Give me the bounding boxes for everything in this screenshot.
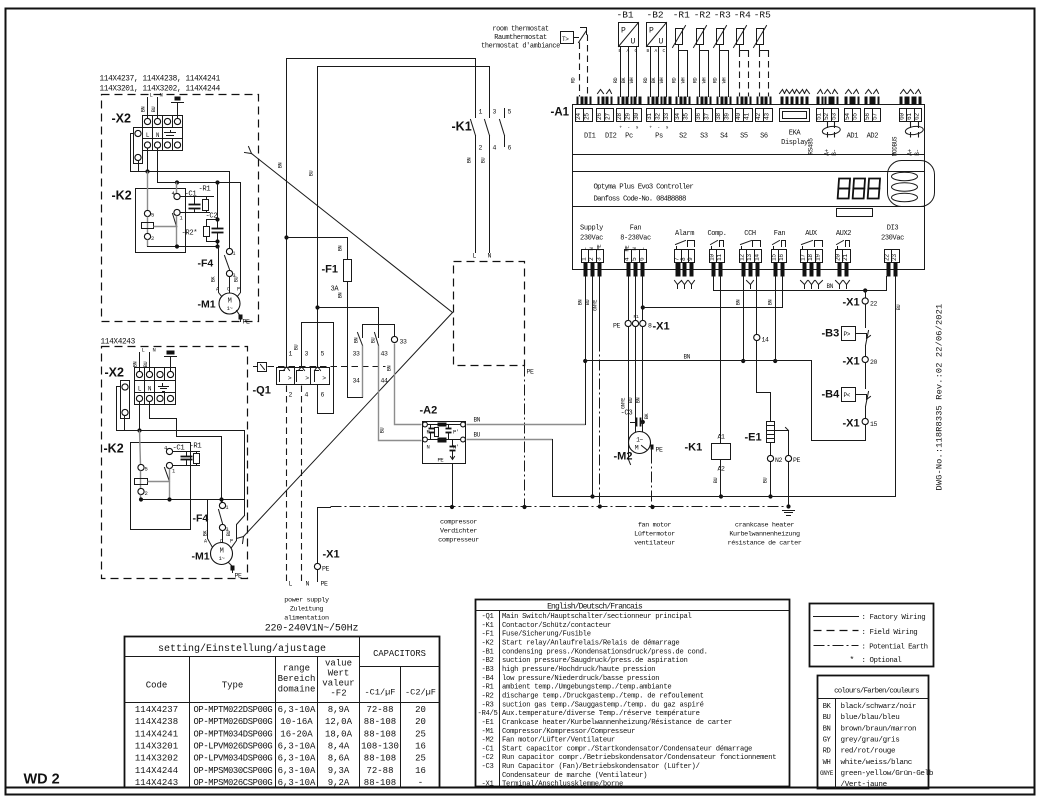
wire fan relay 15 to BN bus <box>768 277 778 364</box>
svg-text:PE: PE <box>235 573 243 580</box>
svg-text:6: 6 <box>321 392 325 399</box>
svg-text:-K2: -K2 <box>104 442 124 456</box>
svg-text:33: 33 <box>400 339 408 346</box>
terminal N2 and PE of heater <box>763 443 801 509</box>
svg-text:AUX2: AUX2 <box>836 230 851 238</box>
wire fan BN <box>636 277 645 432</box>
svg-text:-A2: -A2 <box>420 405 438 417</box>
svg-text:brown/braun/marron: brown/braun/marron <box>841 725 917 733</box>
svg-text:15: 15 <box>870 421 878 428</box>
svg-text:L: L <box>150 92 153 99</box>
svg-text:-C1: -C1 <box>481 745 493 753</box>
svg-text:setting/Einstellung/ajustage: setting/Einstellung/ajustage <box>158 643 326 655</box>
svg-text:>: > <box>288 375 292 382</box>
svg-text:A1: A1 <box>718 434 726 441</box>
wire A2 BU out <box>467 432 553 440</box>
svg-text:P: P <box>649 27 654 36</box>
svg-text:RD: RD <box>693 78 699 84</box>
svg-text:WD 2: WD 2 <box>24 772 60 788</box>
svg-text:OP-LPVM034DSP00G: OP-LPVM034DSP00G <box>194 754 273 764</box>
svg-text:B-: B- <box>831 149 838 155</box>
svg-text:41: 41 <box>744 113 751 120</box>
svg-text:crankcase heater: crankcase heater <box>735 522 794 530</box>
svg-text:L: L <box>581 248 588 251</box>
svg-text:MODBUS: MODBUS <box>892 136 899 156</box>
analog output AD2 <box>864 90 881 141</box>
svg-text:22: 22 <box>870 301 878 308</box>
svg-text:B-: B- <box>914 149 921 155</box>
svg-text:L: L <box>639 248 646 251</box>
wire supply GNYE from terminal 3 <box>593 277 602 509</box>
svg-text:20: 20 <box>415 705 426 715</box>
svg-text:BN: BN <box>467 158 473 164</box>
svg-text:GY: GY <box>823 736 832 744</box>
wire X2 stubs up (group 2) <box>133 347 156 372</box>
svg-text:-E1: -E1 <box>745 432 762 444</box>
capacitor C1 (group 2) <box>173 445 200 466</box>
svg-text:24: 24 <box>575 113 582 120</box>
svg-text:-C1/µF: -C1/µF <box>365 688 396 698</box>
wire X2 L/N stubs up (group 1) <box>141 92 163 119</box>
svg-text:-F2: -F2 <box>330 689 346 699</box>
svg-text:6,3-10A: 6,3-10A <box>278 754 316 764</box>
svg-text:16: 16 <box>778 254 785 261</box>
svg-text:-K2: -K2 <box>112 189 132 203</box>
capacitor C1 (group 1) <box>181 191 214 213</box>
svg-text:61: 61 <box>906 113 913 120</box>
contactor coil K1 <box>685 434 731 499</box>
pressure transmitter B2 <box>643 10 667 97</box>
svg-text:BU: BU <box>628 398 634 404</box>
svg-text:32: 32 <box>655 113 662 120</box>
svg-text:BU: BU <box>143 362 149 368</box>
svg-text:Optyma Plus Evo3 Controller: Optyma Plus Evo3 Controller <box>594 184 694 192</box>
svg-text:alimentation: alimentation <box>284 615 329 623</box>
svg-text:Condensateur de marche (Ventil: Condensateur de marche (Ventilateur) <box>502 772 647 780</box>
svg-text:Type: Type <box>222 681 244 691</box>
svg-text:8,6A: 8,6A <box>328 754 350 764</box>
svg-text:BU: BU <box>151 107 157 113</box>
svg-text:WH: WH <box>629 78 635 84</box>
svg-text:6,3-10A: 6,3-10A <box>278 778 316 788</box>
svg-text:114X4238: 114X4238 <box>135 717 178 727</box>
svg-text:white/weiss/blanc: white/weiss/blanc <box>841 759 913 767</box>
svg-text:-M1: -M1 <box>481 728 493 736</box>
svg-text:Pc: Pc <box>625 133 633 141</box>
svg-text:: Potential Earth: : Potential Earth <box>862 644 928 652</box>
svg-text:16: 16 <box>415 741 426 751</box>
option group box 114X4243 <box>101 339 248 579</box>
svg-text:condensing press./Kondensation: condensing press./Kondensationsdruck/pre… <box>502 648 708 656</box>
svg-text:T>: T> <box>562 36 569 43</box>
overload protector F4 (group 2) <box>193 500 233 543</box>
controller input DI1 <box>575 97 595 141</box>
power supply label <box>265 597 359 635</box>
svg-text:-E1: -E1 <box>481 719 493 727</box>
svg-text:BN: BN <box>636 398 642 404</box>
svg-text:-B4: -B4 <box>481 675 493 683</box>
wire L run to F4 (group 1) <box>131 134 230 249</box>
svg-text:L: L <box>289 581 293 588</box>
svg-text:/Vert-jaune: /Vert-jaune <box>841 781 888 789</box>
svg-text:OP-MPSM026CSP00G: OP-MPSM026CSP00G <box>194 778 273 788</box>
svg-text:20: 20 <box>835 254 842 261</box>
terminal X1:22 <box>843 291 878 309</box>
svg-text:AD1: AD1 <box>847 133 859 141</box>
svg-text:36: 36 <box>695 113 702 120</box>
controller input S4 <box>715 97 732 141</box>
svg-text:Aux.temperature/diverse Temp./: Aux.temperature/diverse Temp./réserve te… <box>502 710 700 718</box>
svg-text:5: 5 <box>508 109 512 116</box>
svg-text:L: L <box>142 347 145 354</box>
svg-text:-B4: -B4 <box>822 389 841 401</box>
svg-text:-M2: -M2 <box>614 451 633 463</box>
motor M1 (group 1) <box>198 284 241 315</box>
EKA display connector <box>780 90 810 148</box>
svg-text:BN: BN <box>768 300 774 306</box>
svg-text:8-230Vac: 8-230Vac <box>620 235 651 243</box>
svg-text:P: P <box>621 27 626 36</box>
svg-text:16-20A: 16-20A <box>280 729 313 739</box>
svg-text:11: 11 <box>716 254 723 261</box>
wire supply BU from terminal 2 <box>585 277 595 499</box>
svg-text:-K1: -K1 <box>481 622 493 630</box>
option arrow to group 1 <box>245 147 453 313</box>
overload protector F4 (group 1) <box>198 248 240 283</box>
svg-text:GNYE: GNYE <box>621 398 627 409</box>
svg-text:22: 22 <box>884 254 891 261</box>
room thermostat label <box>481 26 560 51</box>
svg-text:42: 42 <box>755 113 762 120</box>
wiring style legend box <box>810 604 934 667</box>
svg-text:BU: BU <box>823 714 831 722</box>
ground PE at M1 (group 1) <box>237 311 251 326</box>
svg-text:WH: WH <box>659 78 665 84</box>
temperature sensor -R2 <box>693 10 711 97</box>
option group box 114X4237/4238/4241/3201/3202/4244 <box>100 76 259 322</box>
controller input S6 <box>755 97 772 141</box>
svg-text:114X4243: 114X4243 <box>101 339 136 347</box>
svg-text:-K2: -K2 <box>481 640 493 648</box>
svg-text:53: 53 <box>831 113 838 120</box>
svg-text:P': P' <box>453 429 459 436</box>
svg-text:3: 3 <box>305 351 309 358</box>
svg-text:: Factory Wiring: : Factory Wiring <box>862 614 926 622</box>
svg-text:RD: RD <box>672 78 678 84</box>
controller input Pc <box>616 97 641 141</box>
svg-text:108-130: 108-130 <box>361 741 399 751</box>
svg-text:BN: BN <box>338 293 344 299</box>
svg-text:BU: BU <box>226 531 232 537</box>
svg-text:suction gas temp./Sauggastemp.: suction gas temp./Sauggastemp./temp. du … <box>502 701 704 709</box>
svg-text:WH: WH <box>701 78 707 84</box>
wire L run (group 2) <box>117 387 245 516</box>
display buttons <box>892 172 918 201</box>
svg-text:S6: S6 <box>760 133 768 141</box>
BN bus <box>586 354 812 361</box>
svg-text:compressor: compressor <box>440 519 477 527</box>
svg-text:-X1: -X1 <box>653 321 670 333</box>
svg-text:43: 43 <box>381 351 389 358</box>
svg-text:DWG-No.:118R8335 Rev.:02 22/: DWG-No.:118R8335 Rev.:02 22/06/2021 <box>935 304 945 491</box>
terminal 33 <box>387 336 422 424</box>
svg-text:BU: BU <box>713 478 719 484</box>
svg-text:Contactor/Schütz/contacteur: Contactor/Schütz/contacteur <box>502 622 611 630</box>
svg-text:BU: BU <box>309 171 315 177</box>
svg-text:Run Capacitor (Fan)/Betriebsko: Run Capacitor (Fan)/Betriebskondensator … <box>502 763 700 771</box>
wire field supply L (dashed) <box>287 386 293 588</box>
svg-text:10: 10 <box>709 254 716 261</box>
svg-text:19: 19 <box>814 254 821 261</box>
compressor terminal box (dashed) <box>454 262 535 376</box>
svg-text:BU: BU <box>474 432 481 439</box>
wire N run (group 2) <box>150 402 222 503</box>
svg-text:WH: WH <box>823 759 831 767</box>
MODBUS port <box>892 90 924 157</box>
svg-text:Kurbelwannenheizung: Kurbelwannenheizung <box>729 531 800 539</box>
svg-text:-R3: -R3 <box>714 10 731 21</box>
svg-text:-R1: -R1 <box>481 684 493 692</box>
svg-text:fan motor: fan motor <box>638 522 672 530</box>
svg-text:: Field Wiring: : Field Wiring <box>862 629 918 637</box>
svg-text:-R2: -R2 <box>481 692 493 700</box>
svg-text:21: 21 <box>842 254 849 261</box>
svg-text:114X3202: 114X3202 <box>135 754 178 764</box>
svg-text:6,3-10A: 6,3-10A <box>278 766 316 776</box>
main switch Q1 <box>253 363 386 397</box>
wire compressor PE (dash-dot) <box>524 366 526 507</box>
wire CCH 12 to BN bus <box>736 277 746 364</box>
EMC filter A2 <box>420 405 466 464</box>
svg-text:88-108: 88-108 <box>364 778 396 788</box>
svg-text:12: 12 <box>739 254 746 261</box>
svg-text:Comp.: Comp. <box>707 230 726 238</box>
svg-text:88-108: 88-108 <box>364 754 396 764</box>
svg-text:BN: BN <box>141 107 147 113</box>
terminal 14 and wire CCH to heater <box>754 277 771 422</box>
svg-text:S4: S4 <box>720 133 728 141</box>
svg-text:BU: BU <box>371 338 377 344</box>
svg-text:Terminal/Anschlussklemme/borne: Terminal/Anschlussklemme/borne <box>502 781 623 789</box>
svg-text:-B2: -B2 <box>647 10 664 21</box>
wire K2 bottom bus (group 1) <box>148 244 220 283</box>
svg-text:1: 1 <box>233 251 236 257</box>
svg-text:OP-MPTM034DSP00G: OP-MPTM034DSP00G <box>194 729 273 739</box>
controller input S3 <box>695 97 712 141</box>
wire fan relay 16 to fan motor <box>643 277 783 308</box>
svg-text:56: 56 <box>864 113 871 120</box>
svg-text:RD: RD <box>643 78 649 84</box>
svg-text:52: 52 <box>823 113 830 120</box>
wire A2 BN out <box>467 417 586 425</box>
svg-text:-R1: -R1 <box>190 443 202 451</box>
svg-text:Compressor/Kompressor/Compress: Compressor/Kompressor/Compresseur <box>502 728 635 736</box>
svg-text:Verdichter: Verdichter <box>440 528 477 536</box>
svg-text:-R2: -R2 <box>694 10 711 21</box>
svg-text:Zuleitung: Zuleitung <box>290 606 324 614</box>
crankcase heater relay output <box>739 230 762 289</box>
svg-text:N: N <box>306 581 310 588</box>
svg-text:Start relay/Anlaufrelais/Relai: Start relay/Anlaufrelais/Relais de démar… <box>502 640 679 648</box>
svg-text:-K1: -K1 <box>685 442 703 454</box>
svg-text:*: * <box>850 656 854 665</box>
designator legend table <box>476 600 790 789</box>
crankcase heater label <box>728 522 802 548</box>
svg-text:8: 8 <box>648 323 652 330</box>
svg-text:power supply: power supply <box>284 597 329 605</box>
svg-text:black/schwarz/noir: black/schwarz/noir <box>841 703 917 711</box>
svg-text:-R2*: -R2* <box>182 230 198 238</box>
temperature sensor -R3 <box>713 10 731 97</box>
svg-text:114X4244: 114X4244 <box>135 766 178 776</box>
svg-text:AUX: AUX <box>805 230 818 238</box>
svg-text:72-88: 72-88 <box>366 705 393 715</box>
svg-text:37: 37 <box>704 113 711 120</box>
svg-text:U: U <box>659 38 664 47</box>
svg-text:-B3: -B3 <box>481 666 493 674</box>
wire supply BN from terminal 1 <box>578 277 588 425</box>
svg-text:high pressure/Hochdruck/haute: high pressure/Hochdruck/haute pression <box>502 666 655 674</box>
svg-text:-K1: -K1 <box>452 120 472 134</box>
aux contact 43/44 <box>318 308 422 441</box>
svg-text:30: 30 <box>633 113 640 120</box>
fan motor M2 <box>614 432 651 463</box>
svg-text:3A: 3A <box>331 286 340 294</box>
svg-text:Display: Display <box>781 139 808 147</box>
colour code table <box>818 676 934 790</box>
wire BN feeder L <box>278 59 476 361</box>
svg-text:DI2: DI2 <box>605 133 617 141</box>
svg-text:>: > <box>322 375 326 382</box>
terminal X1 PE (supply) <box>314 508 339 588</box>
svg-text:BU: BU <box>481 158 487 164</box>
svg-text:1~: 1~ <box>636 437 643 444</box>
svg-text:230Vac: 230Vac <box>881 235 904 243</box>
svg-text:-X1: -X1 <box>843 418 860 430</box>
svg-text:33: 33 <box>353 351 361 358</box>
svg-text:N: N <box>160 92 163 99</box>
svg-text:-B3: -B3 <box>822 328 840 340</box>
controller input S2 <box>674 97 691 141</box>
svg-text:colours/Farben/couleurs: colours/Farben/couleurs <box>834 688 919 696</box>
svg-text:BN: BN <box>387 366 393 372</box>
wire comp relay 10 to BN link <box>714 277 887 293</box>
svg-text:39: 39 <box>724 113 731 120</box>
svg-text:M: M <box>635 445 639 452</box>
svg-text:1: 1 <box>226 505 229 511</box>
wire thermostat to DI1 (dashed) <box>571 35 588 97</box>
svg-text:N: N <box>588 248 595 251</box>
svg-text:4: 4 <box>493 145 497 152</box>
svg-text:-F4: -F4 <box>193 513 209 525</box>
svg-text:62: 62 <box>914 113 921 120</box>
svg-text:44: 44 <box>381 378 389 385</box>
svg-text:résistance de carter: résistance de carter <box>728 540 802 548</box>
svg-text:Fuse/Sicherung/Fusible: Fuse/Sicherung/Fusible <box>502 631 591 639</box>
svg-text:-M1: -M1 <box>198 299 216 311</box>
fuse F1 <box>287 238 352 398</box>
svg-text:8,4A: 8,4A <box>328 741 350 751</box>
wire Q1 pole 6 to pole 3 link <box>302 323 334 414</box>
svg-text:-R3: -R3 <box>481 701 493 709</box>
svg-text:>: > <box>305 375 309 382</box>
svg-text:88-108: 88-108 <box>364 729 396 739</box>
svg-text:WH: WH <box>680 78 686 84</box>
svg-text:discharge temp./Druckgastemp./: discharge temp./Druckgastemp./temp. de r… <box>502 692 704 700</box>
svg-text:BU: BU <box>585 300 591 306</box>
svg-text:-F1: -F1 <box>322 264 339 276</box>
svg-text:114X4241: 114X4241 <box>135 729 178 739</box>
controller input S5 <box>735 97 752 141</box>
RS485 port <box>808 90 841 156</box>
svg-text:DI1: DI1 <box>584 133 596 141</box>
svg-text:P>: P> <box>844 331 851 338</box>
svg-text:6,3-10A: 6,3-10A <box>278 741 316 751</box>
svg-text:4: 4 <box>305 392 309 399</box>
svg-text:-X2: -X2 <box>105 366 125 380</box>
svg-text:29: 29 <box>625 113 632 120</box>
svg-text:BU: BU <box>234 277 240 283</box>
svg-text:A: A <box>204 539 207 545</box>
svg-text:3: 3 <box>493 109 497 116</box>
thermostat contact T> <box>561 28 587 44</box>
svg-text:BN: BN <box>684 354 691 361</box>
contactor K1 <box>452 59 512 152</box>
svg-text:P: P <box>230 539 233 545</box>
compressor relay output <box>707 230 726 277</box>
svg-text:Supply: Supply <box>580 225 603 233</box>
svg-text:P: P <box>237 287 240 293</box>
svg-text:BN: BN <box>823 725 831 733</box>
pressure transmitter B1 <box>613 10 639 97</box>
terminal block X2 (group 1) <box>112 112 183 164</box>
settings table <box>125 637 440 788</box>
svg-text:88-108: 88-108 <box>364 717 396 727</box>
svg-text:33: 33 <box>663 113 670 120</box>
svg-text:value: value <box>325 659 352 669</box>
svg-text:-F1: -F1 <box>481 631 493 639</box>
svg-text:green-yellow/Grün-Gelb: green-yellow/Grün-Gelb <box>841 770 934 778</box>
svg-text:1: 1 <box>479 109 483 116</box>
earth symbol above X2 (group 1) <box>172 97 184 119</box>
svg-text:OP-MPTM022DSP00G: OP-MPTM022DSP00G <box>194 705 273 715</box>
svg-text:Lüftermotor: Lüftermotor <box>634 531 675 539</box>
terminal X1:20 <box>843 356 878 368</box>
svg-text:8,9A: 8,9A <box>328 705 350 715</box>
svg-text:51: 51 <box>816 113 823 120</box>
svg-text:15: 15 <box>771 254 778 261</box>
svg-text:BU: BU <box>763 478 769 484</box>
svg-text:Fan: Fan <box>774 230 786 238</box>
svg-text:ambient temp./Umgebungstemp./t: ambient temp./Umgebungstemp./temp.ambian… <box>502 684 671 692</box>
aux contact 33/34 <box>348 325 395 398</box>
svg-text:6,3-10A: 6,3-10A <box>278 705 316 715</box>
svg-text:N: N <box>631 248 638 251</box>
svg-text:40: 40 <box>735 113 742 120</box>
svg-text:PE: PE <box>321 581 329 588</box>
svg-text:114X3201: 114X3201 <box>135 741 178 751</box>
svg-text:PE: PE <box>322 566 330 573</box>
svg-text:N1: N1 <box>634 314 639 320</box>
svg-text:-X1: -X1 <box>843 297 860 309</box>
wire comp relay 11 to K1 coil <box>720 277 722 444</box>
svg-text:14: 14 <box>762 337 770 344</box>
svg-text:-X1: -X1 <box>843 356 860 368</box>
svg-text:-X1: -X1 <box>481 781 493 789</box>
svg-text:-M1: -M1 <box>192 551 210 563</box>
aux2 relay output <box>835 230 852 289</box>
svg-text:2: 2 <box>151 235 154 242</box>
